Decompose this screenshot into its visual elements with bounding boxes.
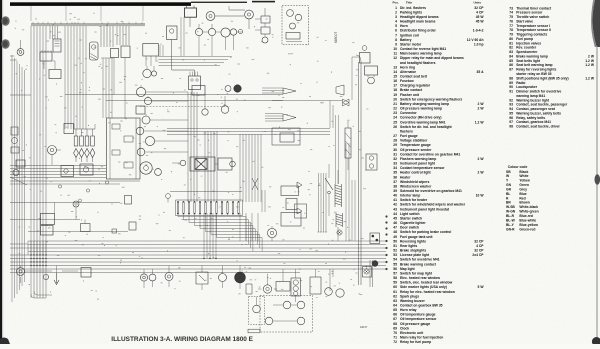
svg-text:Dir. ind. flashers: Dir. ind. flashers [400, 6, 426, 10]
svg-text:Solenoid for overdrive on gear: Solenoid for overdrive on gearbox M41 [400, 189, 462, 193]
svg-text:1-3-4-2: 1-3-4-2 [473, 29, 484, 33]
svg-text:32 CP: 32 CP [474, 6, 484, 10]
svg-text:5 W: 5 W [478, 285, 485, 289]
svg-text:62: 62 [393, 294, 397, 298]
svg-text:Connector: Connector [400, 111, 417, 115]
svg-text:Interior lamp: Interior lamp [400, 194, 420, 198]
svg-text:42: 42 [393, 203, 397, 207]
svg-text:28: 28 [393, 139, 397, 143]
svg-text:License plate light: License plate light [400, 253, 430, 257]
svg-text:Clock: Clock [400, 326, 409, 330]
svg-text:45 W: 45 W [476, 20, 485, 24]
svg-text:Switch for map light: Switch for map light [400, 271, 433, 275]
svg-text:87: 87 [509, 68, 513, 72]
svg-text:Side marker lights (USA only): Side marker lights (USA only) [400, 285, 447, 289]
svg-text:Horn: Horn [400, 24, 408, 28]
svg-text:Main relay for fuel injection: Main relay for fuel injection [400, 336, 443, 340]
svg-text:26: 26 [393, 125, 397, 129]
svg-text:Contact for overdrive on gearb: Contact for overdrive on gearbox M41 [400, 152, 460, 156]
svg-text:Map light: Map light [400, 267, 416, 271]
svg-text:Heater: Heater [400, 175, 411, 179]
svg-text:Colour code: Colour code [508, 165, 528, 169]
svg-text:Green-red: Green-red [519, 227, 535, 231]
svg-text:20: 20 [393, 97, 397, 101]
svg-text:32 CP: 32 CP [474, 239, 484, 243]
svg-text:Oil temperature gauge: Oil temperature gauge [400, 313, 436, 317]
svg-text:Red: Red [519, 196, 525, 200]
svg-text:Rear lights: Rear lights [400, 244, 417, 248]
svg-text:52: 52 [393, 249, 397, 253]
svg-text:Instrument panel light: Instrument panel light [400, 162, 436, 166]
svg-text:Light switch: Light switch [400, 212, 420, 216]
svg-text:1.2 W: 1.2 W [475, 120, 485, 124]
svg-text:Oil temperature sensor: Oil temperature sensor [400, 317, 437, 321]
svg-text:Battery charging warning lamp: Battery charging warning lamp [400, 102, 449, 106]
svg-text:Main beams warning lamp: Main beams warning lamp [400, 52, 442, 56]
svg-text:Blue-red: Blue-red [519, 214, 533, 218]
svg-text:64: 64 [393, 304, 397, 308]
svg-text:Brown: Brown [519, 201, 529, 205]
svg-text:Blue: Blue [519, 192, 526, 196]
svg-text:21: 21 [393, 102, 397, 106]
svg-text:W-GN: W-GN [506, 210, 516, 214]
svg-text:Instrument panel light rheosta: Instrument panel light rheostat [400, 207, 450, 211]
svg-text:1.2 W: 1.2 W [585, 76, 595, 80]
svg-text:Switch for dir. ind. and headl: Switch for dir. ind. and headlight [400, 125, 453, 129]
svg-text:Door switch: Door switch [400, 226, 419, 230]
svg-text:14: 14 [393, 70, 397, 74]
svg-text:4 CP: 4 CP [476, 244, 484, 248]
svg-text:flashers: flashers [400, 129, 413, 133]
svg-text:27: 27 [393, 134, 397, 138]
svg-text:Flasher unit: Flasher unit [400, 93, 420, 97]
svg-text:Relay for elec. heated rear wi: Relay for elec. heated rear window [400, 290, 455, 294]
svg-text:Dipper relay for main and dipp: Dipper relay for main and dipped beams [400, 56, 464, 60]
svg-text:Blue-yellow: Blue-yellow [519, 223, 538, 227]
svg-text:Elec. heated rear window: Elec. heated rear window [400, 276, 440, 280]
svg-text:Blue-white: Blue-white [519, 218, 536, 222]
svg-text:54: 54 [393, 258, 397, 262]
svg-text:43: 43 [393, 207, 397, 211]
svg-text:Contact seat belt: Contact seat belt [400, 75, 428, 79]
svg-text:63: 63 [393, 299, 397, 303]
svg-text:37: 37 [393, 180, 397, 184]
svg-text:30: 30 [393, 148, 397, 152]
svg-text:Fusebox: Fusebox [400, 79, 414, 83]
svg-text:12: 12 [393, 56, 397, 60]
svg-text:32 CP: 32 CP [474, 249, 484, 253]
svg-text:Temperature gauge: Temperature gauge [400, 143, 431, 147]
svg-text:W-SB: W-SB [506, 205, 515, 209]
svg-text:60: 60 [393, 285, 397, 289]
svg-text:67: 67 [393, 317, 397, 321]
svg-text:22: 22 [393, 107, 397, 111]
svg-text:689007: 689007 [334, 32, 338, 43]
svg-text:Charging regulator: Charging regulator [400, 84, 431, 88]
svg-text:Contact, seat buckle, driver: Contact, seat buckle, driver [516, 125, 560, 129]
svg-text:3: 3 [395, 15, 397, 19]
svg-text:7: 7 [395, 33, 397, 37]
svg-text:Contact on gearbox BW 35: Contact on gearbox BW 35 [400, 304, 443, 308]
svg-text:Warning buzzer: Warning buzzer [400, 299, 425, 303]
svg-text:10: 10 [393, 47, 397, 51]
svg-text:Horn relay: Horn relay [400, 308, 417, 312]
svg-text:Black: Black [519, 170, 528, 174]
svg-text:Switch for heater: Switch for heater [400, 198, 428, 202]
svg-text:57: 57 [393, 271, 397, 275]
svg-text:15: 15 [393, 75, 397, 79]
svg-text:Contact for reverse light M41: Contact for reverse light M41 [400, 47, 446, 51]
svg-text:44: 44 [393, 212, 397, 216]
svg-text:GN: GN [506, 183, 512, 187]
svg-text:65: 65 [393, 308, 397, 312]
svg-text:98: 98 [509, 125, 513, 129]
svg-text:69: 69 [393, 326, 397, 330]
svg-text:Switch for windshield wipers a: Switch for windshield wipers and washer [400, 203, 466, 207]
svg-text:Battery: Battery [400, 38, 412, 42]
svg-text:Brake stoplights: Brake stoplights [400, 249, 426, 253]
svg-text:2 W: 2 W [478, 157, 485, 161]
svg-text:Headlight dipped beams: Headlight dipped beams [400, 15, 439, 19]
svg-text:White-black: White-black [519, 205, 538, 209]
svg-text:Parking lights: Parking lights [400, 10, 422, 14]
svg-text:Brake warning contact: Brake warning contact [400, 262, 437, 266]
svg-text:Title: Title [406, 1, 412, 5]
svg-text:Overdrive warning lamp M41: Overdrive warning lamp M41 [400, 120, 446, 124]
svg-text:BL-R: BL-R [506, 214, 515, 218]
svg-text:9: 9 [395, 42, 397, 46]
svg-text:4 CP: 4 CP [476, 10, 484, 14]
svg-text:Switch for parking brake contr: Switch for parking brake control [400, 230, 451, 234]
svg-text:36: 36 [393, 175, 397, 179]
svg-text:100 07: 100 07 [360, 326, 368, 329]
svg-text:Oil pressure warning lamp: Oil pressure warning lamp [400, 107, 442, 111]
svg-text:1.2 W: 1.2 W [585, 63, 595, 67]
svg-text:70: 70 [393, 331, 397, 335]
svg-text:Fuel gauge: Fuel gauge [400, 134, 418, 138]
svg-text:Spark plugs: Spark plugs [400, 294, 419, 298]
svg-text:11: 11 [393, 52, 397, 56]
svg-text:59: 59 [393, 281, 397, 285]
svg-text:4: 4 [395, 20, 397, 24]
svg-text:8: 8 [395, 38, 397, 42]
svg-text:ILLUSTRATION 3-A. WIRING DIAG: ILLUSTRATION 3-A. WIRING DIAGRAM 1800 E [111, 336, 253, 343]
svg-text:38: 38 [393, 184, 397, 188]
svg-text:17: 17 [393, 84, 397, 88]
svg-text:2x4 CP: 2x4 CP [472, 253, 484, 257]
svg-text:Grey: Grey [519, 187, 527, 191]
svg-text:71: 71 [393, 336, 397, 340]
svg-text:10 W: 10 W [476, 194, 485, 198]
svg-text:91: 91 [509, 90, 513, 94]
svg-text:58: 58 [393, 276, 397, 280]
svg-text:68: 68 [393, 322, 397, 326]
svg-text:and headlight flashers: and headlight flashers [400, 61, 436, 65]
svg-text:Relay for fuel pump: Relay for fuel pump [400, 340, 431, 344]
svg-text:BR: BR [506, 201, 511, 205]
svg-text:Windshield wipers: Windshield wipers [400, 180, 429, 184]
svg-text:Voltage stabiliser: Voltage stabiliser [400, 139, 428, 143]
svg-text:Oil pressure sender: Oil pressure sender [400, 148, 432, 152]
svg-text:35: 35 [393, 171, 397, 175]
svg-text:6: 6 [395, 29, 397, 33]
svg-text:45 W: 45 W [476, 15, 485, 19]
svg-text:2: 2 [395, 10, 397, 14]
svg-text:Yellow: Yellow [519, 179, 530, 183]
svg-text:5: 5 [395, 24, 397, 28]
svg-text:53: 53 [393, 253, 397, 257]
svg-text:Windscreen washer: Windscreen washer [400, 184, 432, 188]
svg-text:40: 40 [393, 194, 397, 198]
svg-text:50: 50 [393, 239, 397, 243]
svg-text:51: 51 [393, 244, 397, 248]
svg-text:GN-R: GN-R [506, 227, 515, 231]
svg-text:Electronic unit: Electronic unit [400, 331, 424, 335]
svg-text:19: 19 [393, 93, 397, 97]
svg-text:BL: BL [506, 192, 510, 196]
svg-text:48: 48 [393, 230, 397, 234]
svg-text:55: 55 [393, 262, 397, 266]
svg-text:2 W: 2 W [478, 107, 485, 111]
svg-text:32: 32 [393, 157, 397, 161]
svg-text:47: 47 [393, 226, 397, 230]
svg-text:Oil pressure gauge: Oil pressure gauge [400, 322, 430, 326]
svg-text:Pos.: Pos. [393, 1, 400, 5]
svg-text:Reversing lights: Reversing lights [400, 239, 426, 243]
svg-text:Ignition coil: Ignition coil [400, 33, 419, 37]
svg-text:Fuel gauge tank unit: Fuel gauge tank unit [400, 235, 433, 239]
svg-text:Coolant temperature sensor: Coolant temperature sensor [400, 166, 445, 170]
svg-text:45: 45 [393, 216, 397, 220]
svg-text:Green: Green [519, 183, 529, 187]
svg-text:16: 16 [393, 79, 397, 83]
svg-text:Switch, elec. heated rear wind: Switch, elec. heated rear window [400, 281, 453, 285]
svg-text:Distributor firing order: Distributor firing order [400, 29, 437, 33]
svg-text:2 W: 2 W [478, 171, 485, 175]
svg-text:Units: Units [474, 1, 482, 5]
svg-text:Switch for overdrive M41: Switch for overdrive M41 [400, 258, 440, 262]
svg-text:31: 31 [393, 152, 397, 156]
svg-text:34: 34 [393, 166, 397, 170]
svg-text:1.0 hp: 1.0 hp [474, 42, 484, 46]
svg-text:SB: SB [506, 170, 511, 174]
svg-text:33: 33 [393, 162, 397, 166]
svg-text:Starter motor: Starter motor [400, 42, 422, 46]
svg-text:White-green: White-green [519, 210, 538, 214]
svg-text:Starter switch: Starter switch [400, 216, 422, 220]
svg-text:12 V 60 Ah: 12 V 60 Ah [467, 38, 484, 42]
svg-text:White: White [519, 174, 528, 178]
svg-text:BL-W: BL-W [506, 218, 516, 222]
svg-text:72: 72 [393, 340, 397, 344]
svg-text:18: 18 [393, 88, 397, 92]
svg-text:66: 66 [393, 313, 397, 317]
svg-text:46: 46 [393, 221, 397, 225]
svg-text:25: 25 [393, 120, 397, 124]
svg-text:35 A: 35 A [477, 70, 485, 74]
svg-text:Cigarette lighter: Cigarette lighter [400, 221, 426, 225]
svg-text:Switch for emergency warning f: Switch for emergency warning flashers [400, 97, 462, 101]
svg-text:BL-Y: BL-Y [506, 223, 515, 227]
svg-text:13: 13 [393, 65, 397, 69]
svg-text:2 W: 2 W [478, 102, 485, 106]
svg-text:39: 39 [393, 189, 397, 193]
svg-text:1: 1 [395, 6, 397, 10]
svg-text:Heater control light: Heater control light [400, 171, 432, 175]
svg-text:29: 29 [393, 143, 397, 147]
svg-text:23: 23 [393, 111, 397, 115]
svg-text:61: 61 [393, 290, 397, 294]
svg-text:41: 41 [393, 198, 397, 202]
svg-text:49: 49 [393, 235, 397, 239]
svg-text:24: 24 [393, 116, 397, 120]
svg-text:GR: GR [506, 187, 512, 191]
svg-text:Horn ring: Horn ring [400, 65, 415, 69]
svg-text:Flashers warning lamp: Flashers warning lamp [400, 157, 436, 161]
svg-text:Connector (RH drive only): Connector (RH drive only) [400, 116, 441, 120]
svg-text:Brake contact: Brake contact [400, 88, 423, 92]
svg-text:Headlight main beams: Headlight main beams [400, 20, 436, 24]
svg-text:56: 56 [393, 267, 397, 271]
svg-text:Alternator: Alternator [400, 70, 417, 74]
